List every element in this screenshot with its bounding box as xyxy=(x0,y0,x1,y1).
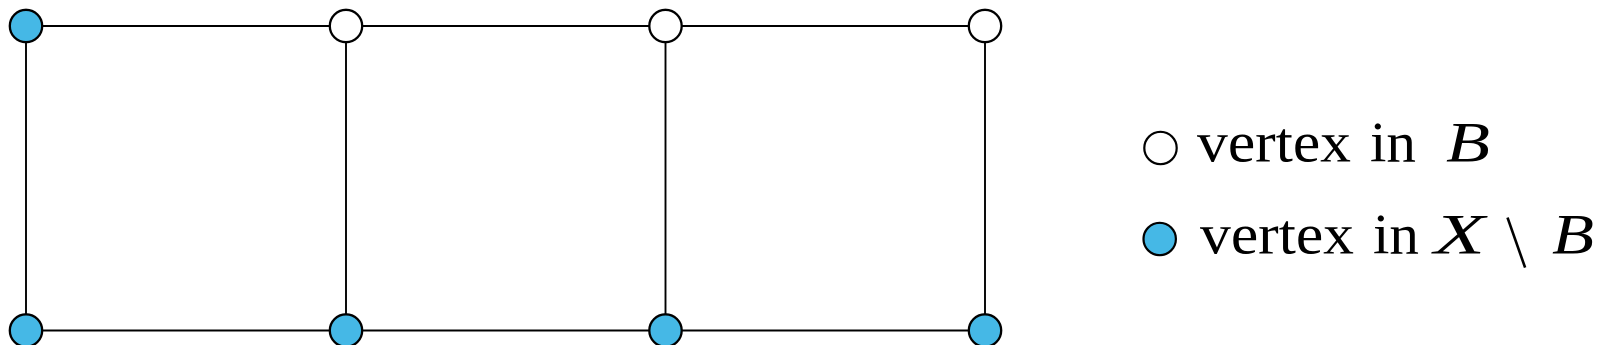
svg-text:B: B xyxy=(1552,204,1594,267)
svg-text:in: in xyxy=(1370,112,1416,175)
wire vertical edge 4 xyxy=(984,26,986,331)
node top-3 (B) xyxy=(649,10,681,42)
node bottom-3 (X\B) xyxy=(649,314,681,345)
wire vertical edge 2 xyxy=(345,26,347,331)
svg-text:in: in xyxy=(1373,204,1419,267)
node top-left (X\B) xyxy=(10,10,42,42)
node top-2 (B) xyxy=(330,10,362,42)
legend marker open circle xyxy=(1144,132,1176,164)
wire vertical edge 3 xyxy=(665,26,667,331)
wire bottom horizontal edge xyxy=(26,330,985,332)
legend marker filled circle xyxy=(1144,223,1176,255)
wire top horizontal edge xyxy=(26,25,985,27)
wire vertical edge 1 xyxy=(25,26,27,331)
setminus backslash xyxy=(1508,218,1526,268)
node bottom-2 (X\B) xyxy=(330,314,362,345)
node top-right (B) xyxy=(969,10,1001,42)
node bottom-left (X\B) xyxy=(10,314,42,345)
svg-text:B: B xyxy=(1446,112,1490,175)
svg-text:vertex: vertex xyxy=(1200,204,1354,267)
node bottom-right (X\B) xyxy=(969,314,1001,345)
svg-text:X: X xyxy=(1431,204,1488,267)
svg-text:vertex: vertex xyxy=(1197,112,1351,175)
